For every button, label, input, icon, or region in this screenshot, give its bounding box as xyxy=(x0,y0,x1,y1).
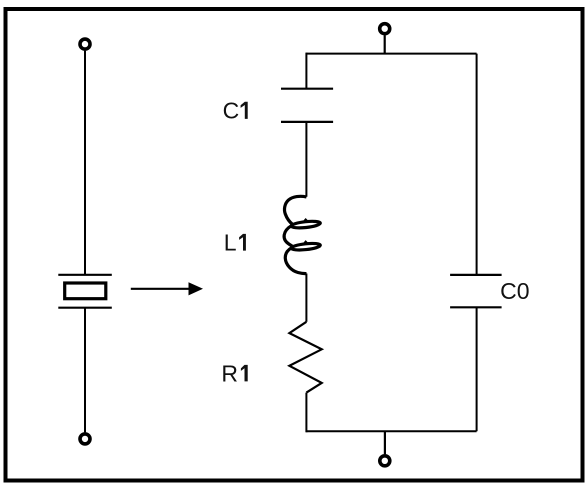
terminal bottom-center xyxy=(380,456,390,466)
svg-text:L: L xyxy=(224,230,237,256)
svg-text:C: C xyxy=(223,98,240,124)
wire xyxy=(305,393,307,433)
wire xyxy=(305,122,307,197)
svg-text:R: R xyxy=(221,360,238,386)
capacitor C1 xyxy=(281,89,333,122)
terminal bottom-left xyxy=(80,434,90,444)
arrow xyxy=(131,282,203,295)
wire right branch bottom xyxy=(476,307,478,431)
wire stub top xyxy=(384,35,386,53)
terminal top-left xyxy=(80,39,90,49)
crystal Y1 xyxy=(58,275,112,308)
wire left branch top xyxy=(305,53,307,89)
wire xyxy=(84,51,86,275)
wire xyxy=(305,274,307,322)
wire xyxy=(84,308,86,433)
capacitor C0 xyxy=(450,275,502,307)
inductor L1 xyxy=(284,196,321,273)
resistor R1 xyxy=(289,322,321,393)
wire top rail xyxy=(306,53,476,55)
wire right branch top xyxy=(476,54,478,275)
wire stub bottom xyxy=(384,431,386,454)
svg-text:C0: C0 xyxy=(500,278,529,304)
wire bottom rail xyxy=(306,430,476,432)
terminal top-center xyxy=(380,24,390,34)
